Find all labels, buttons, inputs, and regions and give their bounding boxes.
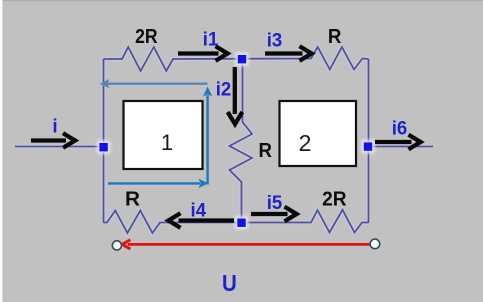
svg-text:i6: i6 [392, 118, 408, 139]
svg-text:2: 2 [299, 130, 312, 156]
svg-text:i3: i3 [267, 31, 283, 52]
svg-text:i2: i2 [216, 79, 232, 100]
svg-text:2R: 2R [135, 26, 158, 48]
svg-text:i5: i5 [267, 193, 283, 214]
svg-text:i4: i4 [191, 200, 207, 221]
svg-text:i: i [52, 116, 57, 137]
svg-text:R: R [125, 188, 141, 210]
svg-text:1: 1 [161, 130, 173, 155]
svg-text:i1: i1 [203, 30, 219, 51]
svg-text:2R: 2R [322, 189, 347, 211]
svg-text:U: U [222, 270, 237, 296]
svg-text:R: R [328, 26, 342, 48]
svg-text:R: R [259, 140, 273, 162]
